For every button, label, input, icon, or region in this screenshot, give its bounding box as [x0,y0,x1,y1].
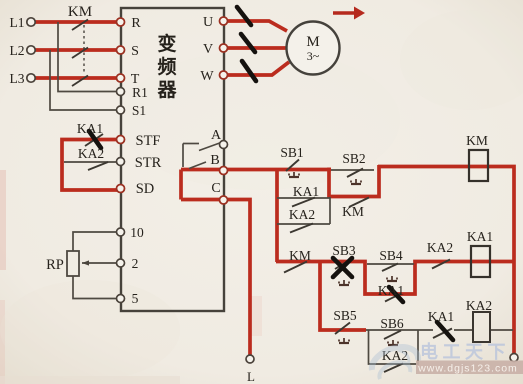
svg-text:R1: R1 [132,85,148,100]
svg-text:10: 10 [130,225,144,240]
svg-text:S1: S1 [132,103,146,118]
svg-text:W: W [200,69,214,84]
svg-text:5: 5 [132,291,139,306]
svg-text:L3: L3 [10,71,25,86]
svg-text:M: M [306,34,319,50]
svg-text:SB5: SB5 [333,308,357,323]
svg-text:频: 频 [157,55,176,78]
svg-text:电工天下: 电工天下 [420,341,510,362]
svg-text:STR: STR [135,155,162,171]
svg-text:变: 变 [157,32,176,55]
svg-text:KA1: KA1 [467,229,493,244]
svg-text:L: L [247,369,255,384]
svg-text:SB2: SB2 [342,151,365,166]
svg-text:KA2: KA2 [78,146,104,161]
svg-text:KA2: KA2 [289,207,315,222]
svg-text:SB3: SB3 [332,243,356,258]
svg-text:R: R [131,16,141,31]
svg-text:U: U [203,15,213,30]
svg-text:KM: KM [342,204,364,219]
svg-text:S: S [131,44,139,59]
svg-text:2: 2 [132,256,139,271]
svg-text:www.dgjs123.com: www.dgjs123.com [417,363,518,375]
svg-text:L2: L2 [10,43,25,58]
svg-text:KM: KM [68,4,92,20]
svg-text:KA1: KA1 [428,309,454,324]
svg-text:A: A [211,128,222,143]
svg-text:KM: KM [466,133,488,148]
svg-text:KA1: KA1 [77,121,103,136]
svg-text:C: C [211,181,220,196]
svg-text:B: B [210,153,219,168]
svg-text:V: V [203,42,213,57]
svg-text:SB4: SB4 [379,248,403,263]
svg-text:3~: 3~ [307,49,320,63]
svg-text:KA2: KA2 [427,240,453,255]
svg-text:KA1: KA1 [293,184,319,199]
svg-text:器: 器 [156,79,177,101]
svg-text:SB6: SB6 [380,316,404,331]
svg-text:RP: RP [46,257,64,273]
svg-text:STF: STF [136,133,161,149]
svg-text:KA2: KA2 [466,298,492,313]
svg-text:KM: KM [289,248,311,263]
svg-text:KA1: KA1 [378,283,404,298]
svg-text:SB1: SB1 [280,145,303,160]
svg-text:SD: SD [136,181,155,197]
svg-text:L1: L1 [10,15,25,30]
